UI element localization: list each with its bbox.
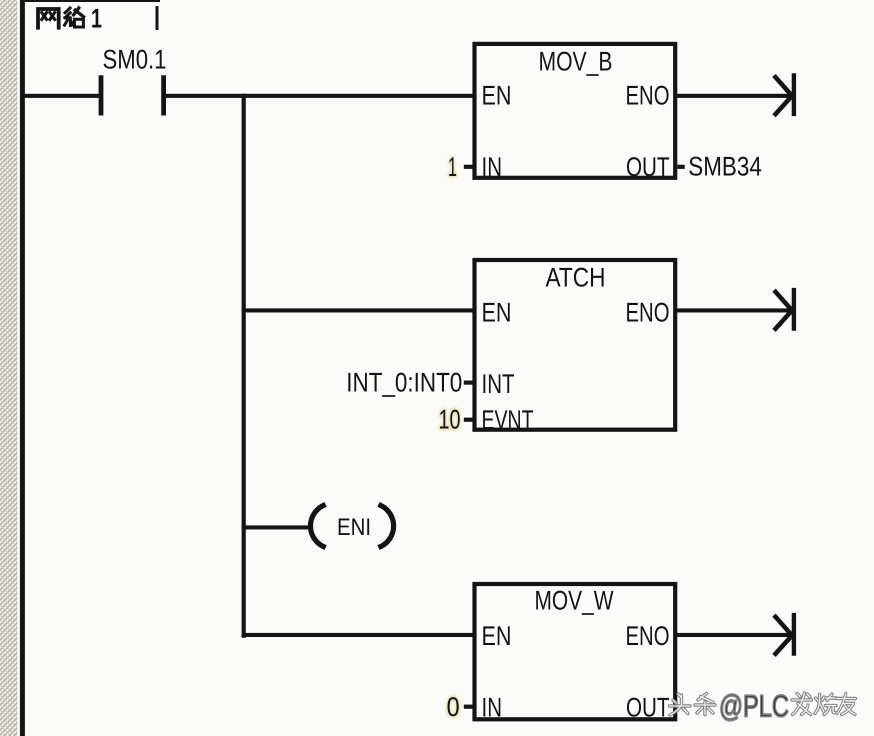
tick OUT MOV_B [677, 165, 684, 169]
svg-text:ENO: ENO [626, 621, 670, 651]
svg-text:ATCH: ATCH [546, 263, 606, 293]
coil ENI left paren [310, 506, 323, 547]
CJK char 网 (wang) drawn as path [38, 9, 59, 28]
wire: MOV_B ENO output [675, 94, 791, 98]
wm char 发 [792, 693, 812, 715]
svg-text:IN: IN [482, 693, 503, 723]
svg-text:SM0.1: SM0.1 [103, 45, 167, 75]
wm char 烧 [815, 694, 836, 715]
svg-text:IN: IN [482, 152, 503, 182]
svg-text:EN: EN [482, 298, 512, 328]
svg-text:INT: INT [482, 369, 515, 399]
svg-text:OUT: OUT [626, 152, 670, 182]
svg-text:ENO: ENO [626, 298, 670, 328]
svg-text:0: 0 [447, 692, 460, 722]
arrow output 2 [774, 288, 794, 331]
CJK char 络 (luo) drawn as path [65, 8, 84, 27]
tick INT [464, 381, 473, 385]
tick IN MOV_B [464, 165, 473, 169]
wm char 友 [837, 694, 856, 715]
wire: ATCH ENO output [675, 308, 791, 312]
coil ENI right paren [381, 506, 394, 547]
wire: rail to contact SM0.1 [23, 94, 99, 98]
contact SM0.1 right bar [161, 75, 166, 115]
arrow output 1 [774, 73, 794, 116]
edit cursor bar [156, 6, 159, 30]
arrow output 3 [774, 613, 794, 656]
left power rail [20, 0, 25, 736]
value 10 (EVNT operand) [439, 404, 461, 434]
svg-text:EVNT: EVNT [482, 405, 534, 435]
svg-text:1: 1 [91, 4, 102, 34]
svg-text:ENI: ENI [337, 514, 371, 541]
branch vertical wire [242, 94, 246, 638]
watermark 头条@PLC发烧友 [670, 689, 856, 724]
svg-text:SMB34: SMB34 [688, 151, 762, 181]
svg-text:EN: EN [482, 80, 512, 110]
svg-text:MOV_B: MOV_B [539, 46, 613, 76]
wire: branch to MOV_W EN [242, 633, 475, 637]
left margin hatch texture strip [0, 0, 17, 736]
wire: branch to ATCH EN [242, 308, 475, 312]
network header label 网络 1 [38, 8, 84, 28]
svg-text:1: 1 [448, 152, 457, 182]
svg-text:ENO: ENO [626, 80, 670, 110]
svg-text:INT_0:INT0: INT_0:INT0 [346, 368, 462, 398]
wm char 头 [670, 694, 691, 715]
svg-text:MOV_W: MOV_W [535, 586, 614, 616]
network top separator line [20, 0, 160, 2]
block MOV_W [475, 584, 676, 719]
block ATCH [475, 260, 676, 430]
value 1 (IN operand) [448, 152, 457, 182]
svg-text:EN: EN [482, 621, 512, 651]
wire: MOV_W ENO output [675, 633, 791, 637]
svg-text:OUT: OUT [626, 693, 670, 723]
contact SM0.1 left bar [99, 75, 104, 115]
svg-text:10: 10 [439, 404, 461, 434]
wire: contact to MOV_B EN and branch [166, 94, 475, 98]
wire: branch to ENI coil [242, 525, 312, 529]
tick IN MOV_W [464, 705, 473, 709]
wm char 条 [695, 694, 715, 715]
svg-text:@PLC: @PLC [719, 689, 789, 724]
tick EVNT [464, 418, 473, 422]
value 0 (IN operand) [447, 692, 460, 722]
block MOV_B [475, 44, 676, 178]
